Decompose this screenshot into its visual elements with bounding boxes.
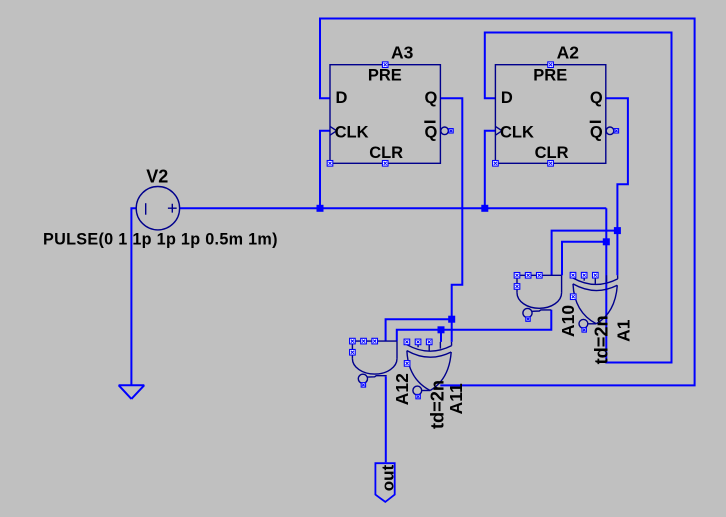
junction bus at A3 CLK	[317, 205, 324, 212]
svg-text:A10: A10	[558, 305, 578, 337]
svg-text:A1: A1	[614, 319, 634, 342]
wire junction1 branch to A10 pin4	[552, 231, 618, 276]
wire A3 CLK to bus	[320, 131, 330, 209]
wire A12 output to out port	[385, 377, 387, 463]
wire junction B branch to A11 pin4	[440, 330, 442, 342]
svg-text:PULSE(0 1 1p 1p 1p 0.5m 1m): PULSE(0 1 1p 1p 1p 0.5m 1m)	[43, 230, 278, 248]
flip-flop A3	[327, 62, 453, 166]
junction bus at A2 CLK	[481, 205, 488, 212]
wire A10 output to A12 pin5	[397, 310, 552, 341]
nand gate A12	[350, 338, 397, 387]
svg-text:A3: A3	[391, 43, 414, 63]
wire node A branch to A12 pin4	[386, 319, 452, 341]
svg-text:A12: A12	[392, 373, 412, 405]
xnor gate A11	[404, 339, 452, 399]
junction J1	[614, 227, 621, 234]
svg-text:A2: A2	[557, 43, 580, 63]
junction A	[448, 316, 455, 323]
nand gate A10	[514, 273, 561, 322]
junction J2	[603, 238, 610, 245]
xnor gate A1	[570, 272, 618, 332]
wire A2 Q down to A1 pin5	[606, 98, 628, 275]
wire A3 Q down to A11 pin5	[440, 98, 462, 342]
svg-text:A11: A11	[446, 383, 466, 414]
ground	[119, 385, 145, 399]
wire V2 minus to ground	[131, 208, 136, 385]
port flag out	[375, 463, 394, 502]
svg-text:out: out	[379, 465, 398, 492]
wire outer feedback loop A11 out to A3 D	[320, 19, 695, 386]
wire junction2 branch to A10 pin5	[562, 242, 606, 275]
svg-text:V2: V2	[146, 167, 168, 187]
voltage source V2	[136, 187, 179, 230]
svg-text:td=2n: td=2n	[427, 380, 447, 429]
wire inner feedback loop A1 out to A2 D	[485, 33, 672, 363]
wire A2 CLK to bus	[485, 131, 496, 209]
flip-flop A2	[493, 62, 619, 166]
svg-text:td=2n: td=2n	[592, 315, 612, 364]
wire main clock bus from V2 plus	[180, 207, 607, 209]
junction B	[438, 326, 445, 333]
